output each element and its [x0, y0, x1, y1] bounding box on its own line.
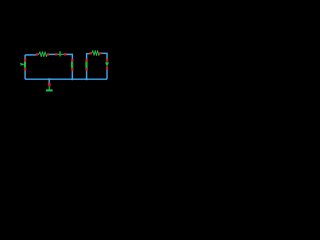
pin V1 top: [24, 59, 26, 61]
pin C1 left: [55, 53, 57, 55]
wire R1 to C1: [48, 53, 56, 55]
wire I1 bottom to rail: [106, 68, 108, 79]
pin C1 right: [64, 53, 66, 55]
wire source bottom to rail: [24, 69, 26, 79]
wire ground stub: [48, 79, 50, 84]
current source I1: [106, 60, 109, 68]
pin I1 bottom: [106, 67, 108, 69]
wire L2 bottom to rail: [86, 70, 88, 80]
source V1: [20, 60, 26, 69]
pin R2 left: [89, 52, 91, 54]
inductor L2: [86, 60, 87, 69]
ground: [46, 86, 53, 90]
junction ground-rail: [48, 78, 50, 80]
pin L2 top: [85, 59, 87, 61]
wire bottom rail: [25, 78, 107, 80]
pin R2 right: [99, 52, 101, 54]
pin R1 right: [47, 53, 49, 55]
capacitor C1: [56, 51, 65, 56]
wire left top rail: [25, 54, 37, 56]
pin V1 bottom: [24, 68, 26, 70]
wire source top stub: [24, 55, 26, 60]
junction L1-rail: [71, 78, 73, 80]
wire L2 top corner to R2: [87, 54, 91, 61]
pin ground: [48, 83, 51, 86]
wire L1 bottom to rail: [71, 70, 73, 80]
junction L2-rail: [86, 78, 88, 80]
pin L2 bottom: [85, 68, 87, 70]
inductor L1: [72, 60, 73, 69]
resistor R1: [37, 52, 48, 57]
pin L1 top: [71, 59, 73, 61]
wire R2 to I1 top corner: [100, 53, 107, 60]
wire C1 to L1 top corner: [65, 54, 72, 60]
pin I1 top: [106, 59, 108, 61]
resistor R2: [91, 51, 101, 56]
pin L1 bottom: [71, 68, 73, 70]
pin R1 left: [36, 53, 38, 55]
